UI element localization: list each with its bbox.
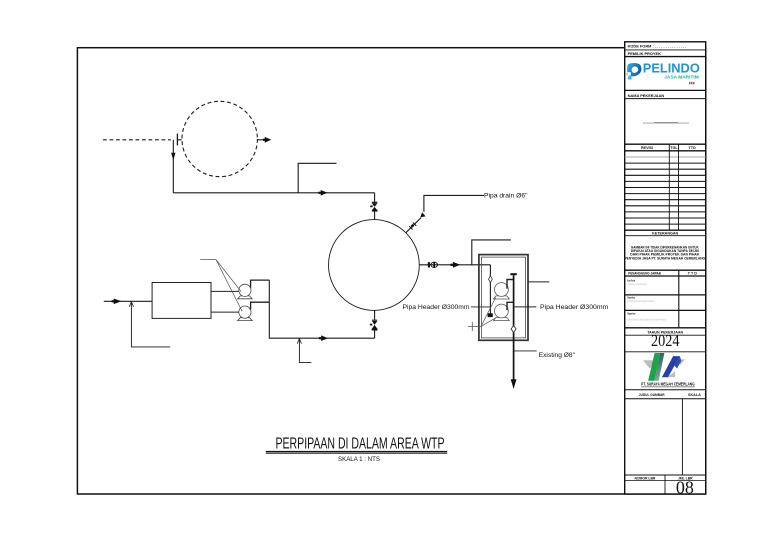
check valve diamond on header <box>511 326 516 333</box>
svg-text:PERPIPAAN DI DALAM AREA WTP: PERPIPAAN DI DALAM AREA WTP <box>276 435 445 452</box>
svg-text:( Nama Jelas + Tanda Tangan ): ( Nama Jelas + Tanda Tangan ) <box>627 284 647 286</box>
arrow A8 open up-arrow on branch x299 <box>297 339 301 344</box>
svg-text:.......................: ....................... <box>627 325 642 327</box>
pump P3 discharge <box>506 279 513 288</box>
SMC company logo <box>643 353 685 381</box>
arrow A7 open up-arrow on branch x131 <box>129 302 133 307</box>
svg-text:PELINDO: PELINDO <box>643 61 700 76</box>
wire: leader for Pipa drain label <box>424 195 484 211</box>
svg-text:Pipa Header Ø300mm: Pipa Header Ø300mm <box>403 304 470 311</box>
svg-text:TGL: TGL <box>670 146 678 150</box>
pump P4 discharge <box>506 302 513 310</box>
valve V4 on drain diagonal <box>409 223 416 230</box>
arrow A2 clarifier outlet right <box>265 137 272 143</box>
tiny red sub text <box>689 82 695 84</box>
pipe: drain diagonal stub <box>406 218 421 233</box>
svg-text:( Nama Jelas dan Tanda Tangan: ( Nama Jelas dan Tanda Tangan Pengawas ) <box>627 301 654 303</box>
keterangan paragraph <box>625 246 706 261</box>
reducer (black) at suction bottom <box>488 313 493 317</box>
pump box PB1 inner liner <box>481 257 525 338</box>
svg-text:PENANGGUNG JAWAB: PENANGGUNG JAWAB <box>628 272 661 276</box>
svg-text:SKALA: SKALA <box>688 393 701 397</box>
svg-text:PEMILIK PROYEK: PEMILIK PROYEK <box>628 51 661 56</box>
valve V2 on tank bottom pipe <box>370 320 378 330</box>
wire: dashed supply line into clarifier <box>103 139 171 141</box>
svg-text:( Nama Jelas dan Tanda Tangan: ( Nama Jelas dan Tanda Tangan Juru Gamba… <box>627 318 666 321</box>
svg-text:Existing Ø8": Existing Ø8" <box>539 352 575 359</box>
wire: branch step up line <box>298 163 336 193</box>
svg-text:PT. SURAYA MEGAH CEMERLANG: PT. SURAYA MEGAH CEMERLANG <box>641 382 695 387</box>
arrow A4 on tank right outlet <box>453 262 460 268</box>
svg-text:NOMOR LBR: NOMOR LBR <box>634 476 655 480</box>
svg-text:Pipa drain Ø6": Pipa drain Ø6" <box>484 192 528 199</box>
wire: riser into tank top <box>374 193 376 220</box>
svg-text:KODE FORM : . . . . . . . . .: KODE FORM : . . . . . . . . . . . . . . … <box>628 44 687 49</box>
svg-text:Pipa Header Ø300mm: Pipa Header Ø300mm <box>540 304 608 311</box>
flange F1 at clarifier inlet <box>176 134 178 146</box>
svg-text:.....................: ..................... <box>627 308 640 310</box>
pump P1 discharge <box>250 280 269 288</box>
svg-text:REVISI: REVISI <box>641 146 653 150</box>
svg-text:Digambar: Digambar <box>627 311 636 315</box>
svg-text:JUDUL GAMBAR: JUDUL GAMBAR <box>639 393 665 397</box>
leader lines to pumps P3 P4 <box>468 298 496 327</box>
pump P4 (box bottom) <box>494 304 510 320</box>
pump box PB1 outer <box>479 255 528 341</box>
title block horizontal rules <box>625 50 706 481</box>
wire: unit to pump P1 <box>211 290 239 292</box>
svg-text:JASA MARITIM: JASA MARITIM <box>664 74 699 79</box>
wire: main header run to WTP tank top <box>173 192 374 194</box>
valve V1 on tank top riser <box>370 202 377 211</box>
title block outer frame <box>625 42 706 494</box>
leader lines to pumps P1 P2 <box>200 260 242 312</box>
svg-text:PENYEDIA JASA PT. SURAYA MEGAH: PENYEDIA JASA PT. SURAYA MEGAH CEMERLANG <box>625 256 706 260</box>
WTP tank T2 (circle) <box>329 220 420 311</box>
wire: small branch with up arrow (left) <box>299 338 311 362</box>
svg-text:Diperiksa: Diperiksa <box>627 295 635 299</box>
wire: left internal pump suction drop <box>489 265 491 314</box>
svg-text:2024: 2024 <box>651 331 680 350</box>
wire: header outlet to right label <box>514 306 537 308</box>
placeholder line in nama area <box>643 122 689 124</box>
discharge header cap <box>510 273 516 275</box>
wire: branch up over pump box <box>472 240 511 265</box>
pump P1 (left top) <box>238 284 253 299</box>
arrow A10 header down arrowhead <box>511 379 517 389</box>
wire: left pump discharge header run <box>269 280 374 338</box>
svg-text:KETERANGAN: KETERANGAN <box>652 231 678 235</box>
wire: Existing leader <box>514 350 537 352</box>
wire: tank outlet right run <box>419 264 490 266</box>
svg-text:T T D: T T D <box>688 272 698 276</box>
clarifier tank T1 (dashed circle) <box>182 101 257 176</box>
wire: stub right of box top <box>528 281 550 283</box>
arrow A1 down on clarifier drop <box>171 153 175 160</box>
pump P2 discharge <box>250 302 269 309</box>
title block vertical rules <box>665 144 682 494</box>
svg-text:NAMA PEKERJAAN: NAMA PEKERJAAN <box>628 93 665 98</box>
drawing border frame <box>77 48 705 494</box>
wire: branch below feed line <box>131 301 170 347</box>
wire: bottom tank pipe to pump header <box>374 310 376 338</box>
Pelindo logo mark <box>626 63 641 79</box>
arrow A9 leader arrowhead at drain valve <box>420 212 425 217</box>
wire: unit to pump P2 <box>211 311 239 313</box>
arrow A5 on bottom header <box>321 335 328 341</box>
arrow A6 feed line <box>114 299 122 305</box>
svg-text:SKALA 1 : NTS: SKALA 1 : NTS <box>338 457 380 463</box>
arrow A3 on main header <box>321 190 328 196</box>
pump P3 (box top) <box>494 283 510 299</box>
wire: drop from dashed line corner down to main header <box>172 140 174 193</box>
valve V3 on tank right outlet <box>428 262 438 268</box>
svg-text:08: 08 <box>676 478 694 498</box>
pump P2 (left bottom) <box>238 306 253 321</box>
svg-text:TTD: TTD <box>689 146 697 150</box>
svg-text:.........................: ......................... <box>627 293 641 295</box>
valve diamond on suction drop <box>489 276 493 283</box>
wire: discharge header vertical <box>513 275 515 380</box>
wire: clarifier outlet stub right <box>258 139 266 141</box>
wire: feed line into rectangle unit <box>104 300 152 302</box>
svg-text:Ketua Proyek: Ketua Proyek <box>627 278 635 282</box>
dosing unit rectangle <box>152 283 211 319</box>
